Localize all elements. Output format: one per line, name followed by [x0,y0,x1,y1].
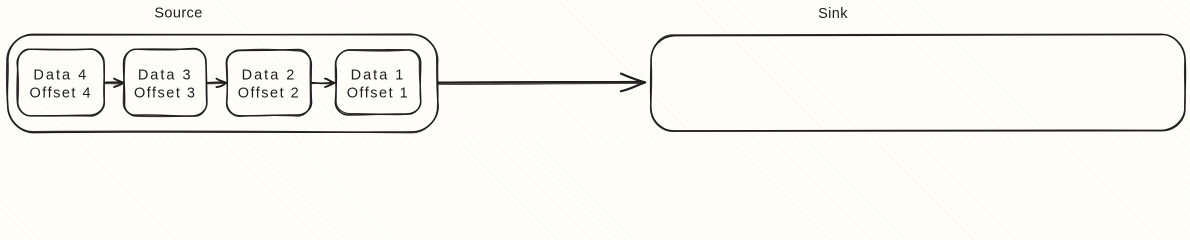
container Sink box [651,34,1186,131]
node Data 2 / Offset 2 box [226,49,311,116]
svg-text:Data 2: Data 2 [242,68,297,84]
node Data 3 / Offset 3 box [123,48,207,116]
svg-text:Data 1: Data 1 [351,68,406,84]
label Sink [818,6,848,22]
svg-text:Offset 1: Offset 1 [347,86,410,102]
arrow Source→Sink [438,74,646,92]
svg-text:Data 4: Data 4 [33,68,88,84]
arrow Data2→Data1 [312,79,335,87]
svg-text:Sink: Sink [818,6,848,22]
arrow Data4→Data3 [105,79,124,87]
svg-text:Source: Source [154,6,202,22]
node Data 1 / Offset 1 box [335,50,421,115]
node Data 4 / Offset 4 box [17,49,104,116]
svg-text:Offset 3: Offset 3 [134,86,197,102]
svg-text:Data 3: Data 3 [138,68,193,84]
container Source group box [7,34,439,133]
svg-text:Offset 4: Offset 4 [30,86,93,102]
svg-text:Offset 2: Offset 2 [238,86,301,102]
arrow Data3→Data2 [207,79,226,87]
label Source [154,6,202,22]
